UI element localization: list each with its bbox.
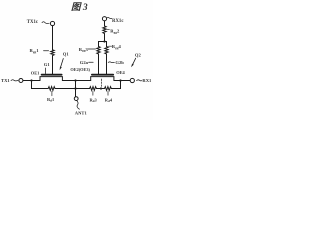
junction RX1 node (119, 79, 121, 81)
dashed tap wire (101, 79, 103, 88)
RX1 leader squiggle (137, 80, 142, 81)
wire TX1 node down to bypass (32, 81, 48, 89)
svg-text:Rd3: Rd3 (90, 97, 98, 103)
wire TX1 to Q1 source (23, 80, 40, 82)
junction TX1 node (30, 79, 32, 81)
wire RX1c to Rgg2 (104, 21, 106, 26)
leader Rd1 (51, 91, 53, 96)
resistor Rgg2 (103, 26, 106, 35)
resistor Rd1 (47, 87, 56, 91)
svg-text:ANT1: ANT1 (75, 110, 88, 115)
svg-text:Rd1: Rd1 (47, 97, 54, 103)
TX1 leader squiggle (11, 80, 18, 81)
leader G2b (108, 61, 114, 64)
junction T-node (103, 40, 105, 42)
svg-text:Q2: Q2 (135, 53, 142, 58)
wire Q2 drain to RX1 (114, 80, 130, 82)
leader Rd3 (92, 91, 94, 95)
svg-text:RX1c: RX1c (112, 19, 124, 24)
wire Rgg2 to T-node (104, 35, 106, 42)
wire Rd1 to ANT node (56, 88, 75, 90)
resistor Rgg3 (97, 47, 100, 55)
TX1c leader squiggle (42, 22, 49, 24)
svg-text:Rd4: Rd4 (105, 97, 113, 103)
transistor Q1 channel (40, 77, 62, 81)
arrow Q2 (133, 58, 136, 64)
arrow Q1 (61, 59, 64, 67)
wire Rd3 to Rd4 (98, 88, 104, 90)
wire mid Q1 drain to Q2 source (62, 80, 90, 82)
leader Rgg1 (44, 50, 49, 52)
wire left branch to Rgg3 (98, 42, 100, 47)
resistor Rgg1 (51, 50, 54, 57)
wire G2a lead (98, 55, 100, 74)
svg-text:Rgg3: Rgg3 (79, 47, 89, 53)
svg-text:G2b: G2b (115, 60, 124, 65)
junction ANT upper (74, 79, 76, 81)
transistor Q2 gate bar (92, 74, 113, 76)
wire T-bar (99, 41, 107, 43)
transistor Q1 gate bar (42, 74, 62, 76)
svg-text:OE2(OE3): OE2(OE3) (70, 67, 90, 72)
junction ANT lower (74, 87, 76, 89)
leader Rgg3 (88, 48, 95, 50)
svg-text:RX1: RX1 (142, 78, 152, 83)
wire ANT node to Rd3 (76, 88, 89, 90)
svg-text:图 3: 图 3 (71, 2, 88, 13)
svg-text:Q1: Q1 (63, 52, 70, 57)
wire G2b lead (106, 55, 108, 74)
leader Rgg2 (107, 28, 110, 30)
wire right branch to Rgg4 (106, 42, 108, 47)
svg-text:Rgg4: Rgg4 (112, 44, 122, 50)
RX1c leader squiggle (107, 17, 112, 18)
leader G1 (45, 68, 47, 74)
terminal RX1 circle (130, 78, 134, 82)
leader Rgg4 (109, 45, 112, 47)
svg-text:G2a: G2a (80, 60, 89, 65)
resistor Rd3 (89, 87, 98, 91)
leader G2a (89, 61, 94, 63)
terminal TX1c circle (50, 21, 54, 25)
svg-text:OE4: OE4 (116, 70, 125, 75)
svg-text:TX1c: TX1c (27, 20, 39, 25)
ANT1 leader curve (77, 101, 80, 110)
terminal RX1c circle (102, 17, 106, 21)
resistor Rgg4 (105, 47, 108, 55)
wire TX1c to Rgg1 (52, 26, 54, 50)
terminal ANT1 circle (74, 97, 78, 101)
wire Rd4 up to RX1 node (112, 81, 120, 89)
svg-text:G1: G1 (44, 62, 51, 67)
svg-text:TX1: TX1 (1, 78, 10, 83)
transistor Q2 channel (91, 77, 114, 81)
svg-text:Rgg1: Rgg1 (30, 48, 40, 54)
resistor Rd4 (103, 87, 112, 91)
terminal TX1 circle (19, 79, 23, 83)
svg-text:Rgg2: Rgg2 (110, 28, 120, 34)
svg-text:OE1: OE1 (31, 71, 40, 76)
leader Rd4 (107, 91, 109, 95)
wire Rgg1 to Q1 gate (52, 56, 54, 74)
wire ANT vertical (75, 81, 77, 97)
junction Rd mid (100, 87, 102, 89)
